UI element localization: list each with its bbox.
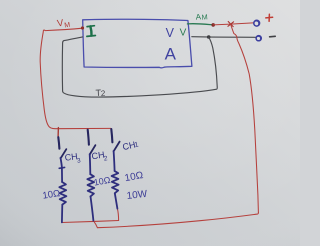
meter box U1 (combined V/A meter outline) — [83, 19, 192, 68]
- terminal (blue circle) — [256, 36, 261, 41]
label AM (green) — [195, 12, 208, 23]
svg-text:M: M — [201, 12, 208, 21]
label VM (red) — [56, 17, 71, 31]
label CH1 — [122, 139, 140, 152]
wire VM red: from meter left terminal, around left side down to resistor bus — [40, 28, 111, 129]
resistor R1 10ohm 10W (right branch) — [112, 151, 119, 209]
junction dot (black) on - wire — [207, 35, 211, 39]
switch CH2 (blade + contacts, middle branch) — [88, 130, 96, 155]
label 10 ohm (R3) — [42, 188, 61, 202]
red load wire: right side vertical from + junction down to bottom corner — [231, 25, 259, 213]
+ sign (red) — [266, 14, 273, 21]
label 10 ohm (R1) — [124, 170, 145, 184]
svg-text:V: V — [180, 28, 187, 39]
wire to + terminal (red) — [213, 23, 253, 25]
label 10 ohm (R2) — [93, 175, 111, 188]
red stub from CH1 branch bottom to bus — [117, 209, 118, 221]
junction blob at meter left terminal — [81, 26, 84, 29]
label T2 on black wire — [95, 88, 106, 99]
red bottom wire: from bottom-right corner left to resistor bank bottom — [93, 213, 258, 228]
switch CH3 (blade + contacts) — [58, 137, 66, 158]
resistor R3 10ohm (left branch) — [59, 158, 66, 223]
red bottom bus S1 connecting resistor branch bottoms — [62, 221, 119, 223]
resistor R2 10ohm (middle branch) — [87, 154, 94, 221]
svg-text:M: M — [64, 22, 71, 30]
wire AM green: from meter right to junction — [187, 24, 213, 25]
label 10W (R1 power rating) — [126, 189, 148, 202]
+ terminal (blue circle) — [254, 20, 260, 26]
svg-text:10W: 10W — [126, 189, 148, 202]
label CH3 — [64, 151, 81, 166]
red top bus stub to switch S3 — [57, 128, 59, 137]
black return wire: meter left terminal, down, across bottom of meter, up to black junction — [62, 37, 217, 97]
svg-text:A: A — [165, 44, 177, 63]
label CH2 — [91, 149, 108, 164]
switch CH1 (blade + contacts, right branch) — [111, 129, 119, 151]
svg-text:V: V — [166, 26, 175, 40]
wire - (black) from meter right to - terminal — [192, 36, 256, 39]
junction dot (dark red) on + wire — [211, 23, 215, 27]
current terminal marker I (green serif I) — [87, 26, 96, 37]
junction X mark where load branch taps + wire — [228, 22, 234, 27]
- sign (dark) — [270, 35, 276, 38]
